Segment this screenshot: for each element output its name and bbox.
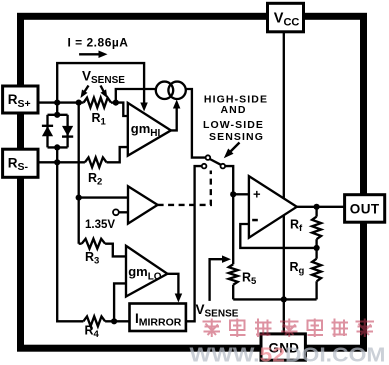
terminal VCC xyxy=(268,3,304,32)
wire: switch throw 2 to op-amp + input and R5 xyxy=(225,166,233,264)
wire: R4 to IMIRROR xyxy=(105,320,129,322)
svg-text:1.35V: 1.35V xyxy=(85,219,115,231)
node: op-amp + input / R5 xyxy=(230,191,236,197)
wire: R1 right lead xyxy=(111,101,116,103)
comparator buffer (1.35V) xyxy=(128,186,158,223)
node: R1 right terminal xyxy=(113,100,119,106)
wire: arrow of I into gmHI xyxy=(140,103,148,112)
wire: IMIRROR output to VSENSE node / switch throw 1 xyxy=(185,166,203,321)
wire: gmLO lower input from R4 node xyxy=(114,283,126,321)
switch throw contact 2 xyxy=(221,164,226,169)
wire: dashed control from comparator to switch xyxy=(158,171,211,205)
arrow VSENSE left xyxy=(83,86,89,95)
wire: Rg top connection xyxy=(315,248,317,259)
resistor Rg xyxy=(312,259,321,282)
node: RS+/tap junction xyxy=(76,100,82,106)
node: RS- rail junction xyxy=(54,159,60,165)
wire: R3 to gmLO upper input xyxy=(105,244,126,257)
node: R4/gmLO junction xyxy=(111,318,117,324)
terminal RS+ xyxy=(3,86,38,113)
wire: buffer upper input xyxy=(79,196,128,198)
arrow under I label xyxy=(79,53,100,55)
wire: R1 node up-branch to current mirror xyxy=(116,89,156,103)
op-amp gmLO xyxy=(126,246,167,297)
svg-text:Rg: Rg xyxy=(290,260,305,277)
diode D1 (cathode up) xyxy=(42,125,53,127)
switch pole contact xyxy=(206,155,211,160)
diode D2 (cathode down) xyxy=(62,126,73,136)
terminal GND xyxy=(261,334,305,360)
resistor R4 xyxy=(83,316,105,326)
svg-text:OUT: OUT xyxy=(350,201,380,216)
resistor R3 xyxy=(82,239,105,249)
svg-text:R2: R2 xyxy=(88,171,102,188)
node: buffer input tap xyxy=(76,195,82,201)
wire: ground bus xyxy=(233,298,316,300)
wire: R1 node to gmHI + input xyxy=(116,103,128,116)
protection diode pair box xyxy=(56,103,58,115)
wire: R5 bottom to ground bus xyxy=(232,285,234,300)
resistor R2 xyxy=(85,157,107,167)
svg-text:SENSING: SENSING xyxy=(209,131,264,143)
output op-amp U1 xyxy=(249,176,297,238)
resistor R1 xyxy=(84,98,111,108)
wire: RS+ tap line down to buffer and R3 xyxy=(78,103,80,244)
wire: Rf top connection xyxy=(315,207,317,217)
node: RS+/loop junction xyxy=(54,100,60,106)
svg-text:AND: AND xyxy=(220,104,246,116)
node: ground bus / supply line xyxy=(281,296,287,302)
IMIRROR box xyxy=(130,304,186,332)
watermark: chinese characters xyxy=(203,319,375,338)
wire: RS+ rail to R1 xyxy=(38,101,84,103)
svg-text:R5: R5 xyxy=(242,270,257,287)
arrow from SENSING to switch xyxy=(230,143,240,153)
node: op-amp output / Rf xyxy=(314,204,320,210)
wire: R3 corner at tap line xyxy=(79,243,82,245)
node: diode top xyxy=(54,112,60,118)
svg-text:R3: R3 xyxy=(85,250,99,267)
op-amp gmHI xyxy=(128,103,171,156)
wire: R2 to gmHI - input xyxy=(107,147,128,162)
wire: RS- rail to R2 xyxy=(38,161,85,163)
svg-text:I = 2.86µA: I = 2.86µA xyxy=(68,36,129,50)
terminal RS- xyxy=(3,149,38,177)
svg-text:LOW-SIDE: LOW-SIDE xyxy=(203,119,264,131)
wire: gmLO output down into IMIRROR xyxy=(167,274,178,296)
switch blade xyxy=(210,159,221,165)
wire: current mirror to switch pole xyxy=(186,89,206,158)
svg-text:Rf: Rf xyxy=(290,217,303,234)
wire: VCC supply line down to GND xyxy=(283,32,285,334)
node: diode bottom xyxy=(54,144,60,150)
current source/mirror symbol (interlocked circles) xyxy=(156,82,173,99)
svg-text:VSENSE: VSENSE xyxy=(82,69,125,87)
arrow VSENSE right xyxy=(101,86,106,95)
wire: gmHI output up into current mirror xyxy=(171,105,177,131)
wire: Rg bottom to ground bus xyxy=(315,281,317,299)
svg-text:VSENSE: VSENSE xyxy=(196,302,239,320)
wire: op-amp + input xyxy=(233,193,249,195)
terminal OUT xyxy=(345,195,385,223)
wire: VSENSE current loop (I) xyxy=(57,63,144,104)
resistor Rf xyxy=(312,217,321,240)
wire: op-amp output to OUT xyxy=(297,206,345,208)
switch throw contact 1 xyxy=(202,164,207,169)
resistor R5 xyxy=(229,264,238,284)
wire: VSENSE node up to R5 with arrow xyxy=(210,259,227,301)
wire: 1.35V terminal to buffer lower input xyxy=(119,211,128,213)
svg-text:+: + xyxy=(253,186,261,201)
wire: op-amp feedback to Rf/Rg node xyxy=(240,224,316,248)
svg-text:R1: R1 xyxy=(92,111,107,128)
wire: Rf bottom connection xyxy=(315,239,317,248)
node: Rf/Rg feedback junction xyxy=(314,245,320,251)
1.35V input terminal xyxy=(113,209,119,215)
wire: RS- line down-left to R4 xyxy=(57,162,83,321)
svg-text:WWW.52DOI.COM: WWW.52DOI.COM xyxy=(190,345,386,365)
